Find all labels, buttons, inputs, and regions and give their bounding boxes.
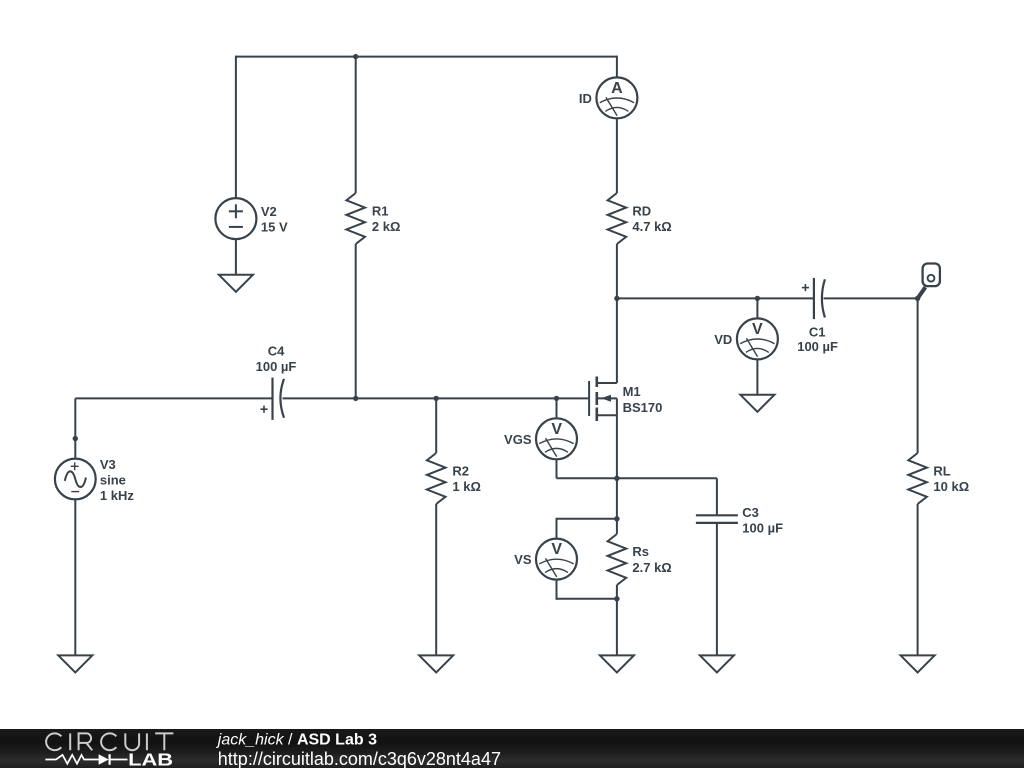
wire V2 top bbox=[235, 56, 237, 199]
wire R2 bottom to ground bbox=[435, 504, 437, 655]
ground below Rs bbox=[600, 655, 634, 672]
wire VGS bottom stub bbox=[556, 459, 558, 478]
svg-text:V3: V3 bbox=[100, 457, 116, 472]
voltmeter VGS bbox=[536, 418, 577, 459]
CircuitLab logo CIRCUIT bbox=[46, 733, 173, 750]
wire output row right bbox=[824, 297, 918, 299]
svg-text:15 V: 15 V bbox=[261, 219, 288, 234]
svg-text:VD: VD bbox=[714, 332, 732, 347]
wire R1 top bbox=[355, 57, 357, 193]
svg-text:10 kΩ: 10 kΩ bbox=[933, 479, 969, 494]
wire output rail down to RL bbox=[917, 298, 919, 453]
wire gate row right C4 to M1 gate bbox=[283, 397, 590, 399]
wire R1 bottom to gate row bbox=[355, 244, 357, 398]
node VD junction bbox=[755, 296, 760, 301]
wire M1 drain up bbox=[616, 298, 618, 383]
wire VS bottom row bbox=[557, 598, 617, 600]
svg-text:1 kHz: 1 kHz bbox=[100, 488, 134, 503]
svg-text:ID: ID bbox=[579, 91, 592, 106]
wire VD to ground bbox=[756, 360, 758, 395]
capacitor C3 bbox=[696, 515, 738, 523]
svg-text:1 kΩ: 1 kΩ bbox=[452, 479, 481, 494]
svg-text:C3: C3 bbox=[742, 505, 759, 520]
voltmeter VD bbox=[737, 318, 778, 359]
wire source row to C3 down bbox=[716, 478, 718, 515]
node source junction bbox=[614, 476, 619, 481]
svg-text:http://circuitlab.com/c3q6v28n: http://circuitlab.com/c3q6v28nt4a47 bbox=[218, 749, 501, 768]
wire VS top stub bbox=[556, 518, 558, 539]
wire Rs bottom to ground bbox=[616, 585, 618, 655]
svg-text:A: A bbox=[611, 80, 623, 97]
wire M1 body to source bbox=[616, 398, 618, 415]
node top-rail R1 junction bbox=[353, 54, 358, 59]
wire V3 bottom to ground bbox=[74, 500, 76, 656]
svg-text:VGS: VGS bbox=[504, 432, 532, 447]
svg-text:V: V bbox=[752, 321, 763, 338]
svg-text:C1: C1 bbox=[809, 325, 826, 340]
ground below V2 bbox=[219, 275, 253, 292]
CircuitLab logo resistor zigzag bbox=[45, 755, 98, 764]
wire C3 bottom to ground bbox=[716, 523, 718, 656]
wire VS bottom stub bbox=[556, 580, 558, 600]
node drain output junction bbox=[614, 296, 619, 301]
svg-text:100 µF: 100 µF bbox=[256, 359, 297, 374]
ground below C3 bbox=[700, 655, 734, 672]
C4 plus sign bbox=[260, 406, 267, 413]
wire ID to RD bbox=[616, 118, 618, 193]
svg-text:V2: V2 bbox=[261, 204, 277, 219]
wire V2 to ground bbox=[235, 239, 237, 275]
wire gate row left V3 to C4 bbox=[75, 397, 272, 399]
svg-text:100 µF: 100 µF bbox=[742, 521, 783, 536]
wire source down to Rs bbox=[616, 478, 618, 534]
node output terminal junction bbox=[915, 296, 920, 301]
svg-text:VS: VS bbox=[514, 552, 532, 567]
svg-text:100 µF: 100 µF bbox=[797, 339, 838, 354]
transistor M1 BS170 bbox=[589, 377, 617, 422]
wire VS top row bbox=[557, 518, 617, 520]
ground below RL bbox=[901, 655, 935, 672]
svg-text:C4: C4 bbox=[268, 344, 285, 359]
resistor R1 bbox=[346, 193, 365, 244]
wire output row left bbox=[617, 297, 814, 299]
wire source row bbox=[557, 477, 717, 479]
svg-text:jack_hick / ASD Lab 3: jack_hick / ASD Lab 3 bbox=[216, 732, 377, 749]
svg-text:2 kΩ: 2 kΩ bbox=[372, 219, 401, 234]
wire M1 source down bbox=[616, 415, 618, 478]
resistor Rs bbox=[608, 534, 627, 585]
node R1 gate junction bbox=[353, 396, 358, 401]
svg-text:RD: RD bbox=[632, 204, 651, 219]
svg-text:V: V bbox=[551, 541, 562, 558]
capacitor C4 plate bbox=[273, 378, 285, 420]
svg-text:R2: R2 bbox=[452, 464, 469, 479]
wire VD top stub bbox=[756, 298, 758, 318]
node VGS gate junction bbox=[554, 396, 559, 401]
voltmeter VS bbox=[536, 539, 577, 580]
CircuitLab logo diode bbox=[99, 754, 128, 765]
ground below VD bbox=[740, 395, 774, 412]
wire top rail V2 to ID bbox=[236, 56, 617, 58]
wire ID top stub bbox=[616, 56, 618, 78]
capacitor C1 plate bbox=[814, 278, 825, 319]
ground below R2 bbox=[419, 655, 453, 672]
ground below V3 bbox=[58, 655, 92, 672]
resistor RL bbox=[908, 453, 927, 504]
resistor RD bbox=[608, 193, 627, 244]
svg-text:M1: M1 bbox=[623, 384, 641, 399]
voltage source V2 bbox=[215, 198, 256, 239]
node R2 gate junction bbox=[434, 396, 439, 401]
wire VGS top stub bbox=[556, 398, 558, 418]
svg-text:Rs: Rs bbox=[632, 544, 649, 559]
output terminal o bbox=[918, 264, 940, 299]
wire V3 top bbox=[74, 398, 76, 459]
svg-text:LAB: LAB bbox=[128, 750, 173, 768]
voltage source V3 sine bbox=[55, 459, 96, 500]
resistor R2 bbox=[427, 453, 446, 504]
ammeter ID bbox=[596, 77, 637, 118]
node V3 terminal bbox=[73, 436, 78, 441]
svg-text:RL: RL bbox=[933, 464, 950, 479]
node VS bottom junction bbox=[614, 596, 619, 601]
svg-text:R1: R1 bbox=[372, 204, 389, 219]
svg-text:BS170: BS170 bbox=[623, 400, 663, 415]
svg-text:sine: sine bbox=[100, 473, 126, 488]
svg-text:V: V bbox=[551, 421, 562, 438]
C1 plus sign bbox=[802, 284, 809, 291]
wire RL bottom to ground bbox=[917, 504, 919, 655]
wire R2 top bbox=[435, 398, 437, 453]
node VS top junction bbox=[614, 516, 619, 521]
svg-text:4.7 kΩ: 4.7 kΩ bbox=[632, 219, 671, 234]
wire RD bottom to output node bbox=[616, 244, 618, 299]
svg-text:2.7 kΩ: 2.7 kΩ bbox=[632, 560, 671, 575]
footer bar bbox=[0, 729, 1024, 768]
